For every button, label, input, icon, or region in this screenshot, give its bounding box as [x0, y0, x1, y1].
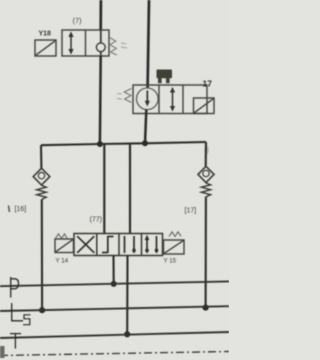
- port letter LS: [12, 303, 31, 325]
- wire supply line to valve Y18: [99, 0, 102, 30]
- node right LS junction: [203, 305, 209, 311]
- smudge at right corner: [204, 146, 208, 155]
- solenoid Y18: [35, 40, 56, 56]
- valve 2 body: [133, 85, 207, 114]
- svg-text:Y18: Y18: [39, 31, 52, 38]
- wire T port to T rail: [126, 256, 128, 335]
- node P junction: [111, 281, 117, 287]
- P rail: [0, 281, 229, 286]
- svg-text:(7): (7): [73, 16, 83, 25]
- valve 2 middle position arrows: [170, 87, 175, 112]
- svg-text:17: 17: [203, 79, 213, 89]
- main valve body: [74, 234, 163, 256]
- LS rail: [0, 306, 229, 311]
- spring of valve Y18: [110, 38, 117, 56]
- port letter T: [10, 334, 21, 349]
- svg-text:[16]: [16]: [15, 206, 27, 213]
- svg-text:Y 15: Y 15: [164, 258, 177, 265]
- wire left check valve to LS rail: [41, 199, 43, 310]
- valve 2 check ball circle: [137, 88, 159, 110]
- faint mark 4%: [121, 43, 127, 48]
- node junction A: [97, 141, 103, 147]
- faint marks left of valve 2: [117, 94, 122, 100]
- wire to right check valve: [205, 142, 207, 166]
- solenoid Y14: [55, 239, 74, 253]
- scan artifact left edge: [0, 346, 5, 358]
- wire B port to main valve: [129, 143, 131, 233]
- wire manifold horizontal: [41, 142, 206, 145]
- check valve [16] diamond: [33, 168, 50, 185]
- main valve box1 crossed arrows: [77, 236, 94, 253]
- wire P port to P rail: [112, 256, 114, 285]
- main valve box2 closed symbol: [102, 236, 114, 253]
- valve Y18 left position arrows: [68, 31, 73, 54]
- spring of check valve [17]: [201, 183, 210, 197]
- solenoid of valve 2: [194, 98, 215, 114]
- node junction B: [142, 140, 148, 146]
- paper background: [0, 0, 229, 360]
- wire valve 2 to junction B: [145, 110, 146, 144]
- svg-text:[17]: [17]: [185, 208, 197, 215]
- boundary dashed line: [0, 352, 229, 356]
- svg-text:(77): (77): [90, 217, 102, 224]
- valve Y18 right position check ball: [96, 30, 105, 56]
- node T junction: [124, 331, 130, 337]
- scan artifact near label 16: [9, 206, 10, 213]
- main valve box3 flow lines: [125, 236, 136, 253]
- svg-text:Y 14: Y 14: [56, 258, 69, 265]
- valve Y18 body: [62, 30, 109, 56]
- spring of check valve [16]: [37, 185, 46, 199]
- spring above Y15: [169, 232, 181, 237]
- solenoid Y15: [164, 240, 185, 254]
- wire right check valve to LS rail: [205, 197, 207, 308]
- node left LS junction: [39, 307, 45, 313]
- wire supply line to valve 2: [148, 0, 149, 88]
- valve 2 circle arrow: [145, 91, 150, 107]
- label Y16 dark blob: [157, 70, 173, 84]
- T rail: [0, 332, 229, 338]
- wire A port to main valve: [103, 144, 105, 234]
- spring of valve 2: [124, 89, 131, 103]
- check valve [17] diamond: [198, 166, 214, 182]
- spring above Y14: [56, 234, 68, 239]
- main valve box4 flow arrows: [145, 235, 159, 253]
- wire to left check valve: [40, 145, 43, 168]
- wire valve Y18 to junction A: [99, 56, 102, 144]
- port letter P: [11, 277, 19, 298]
